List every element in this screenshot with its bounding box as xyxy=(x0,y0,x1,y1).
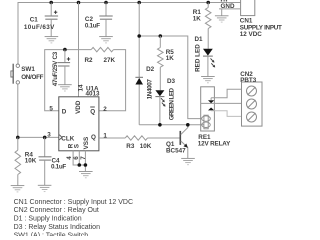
svg-text:GREEN LED: GREEN LED xyxy=(169,88,176,121)
capacitor C3 xyxy=(52,50,70,87)
svg-text:1K: 1K xyxy=(193,16,202,23)
ground C3 xyxy=(58,85,72,91)
svg-text:C1: C1 xyxy=(30,17,39,24)
svg-text:Q: Q xyxy=(91,134,96,141)
svg-text:12V RELAY: 12V RELAY xyxy=(198,140,231,147)
node rail-C1 xyxy=(49,1,53,5)
svg-text:PBT3: PBT3 xyxy=(240,77,257,84)
svg-text:1N4007: 1N4007 xyxy=(147,79,154,100)
connector CN2 PBT3 xyxy=(240,71,262,126)
capacitor C1 xyxy=(24,3,58,37)
capacitor C2 xyxy=(85,3,113,37)
svg-text:D1: D1 xyxy=(195,36,204,43)
svg-text:47uF/25V C3: 47uF/25V C3 xyxy=(52,51,59,86)
resistor R2 + Qbar feedback wire xyxy=(85,47,126,110)
svg-text:2: 2 xyxy=(103,106,107,113)
node Q1-collector xyxy=(186,123,190,127)
svg-text:10K: 10K xyxy=(140,143,152,150)
node D3-collector xyxy=(158,123,162,127)
wire relay NC to CN2-3 xyxy=(211,111,241,117)
svg-text:CN2 Connector : Relay Out: CN2 Connector : Relay Out xyxy=(14,207,99,214)
svg-text:VSS: VSS xyxy=(83,137,90,150)
node rail-D2 xyxy=(137,1,141,5)
svg-text:BC547: BC547 xyxy=(166,148,186,155)
pin 4 label xyxy=(66,156,73,160)
op-amp U1A 4013 flip-flop xyxy=(59,85,100,151)
node 12V-R5 xyxy=(159,34,163,38)
node C3 tap xyxy=(63,48,67,52)
wire CLK line xyxy=(18,136,59,138)
svg-text:10K: 10K xyxy=(25,158,37,165)
node CLK-C4 xyxy=(43,136,47,140)
ground R4 xyxy=(11,186,25,192)
svg-text:D3 : Relay Status Indication: D3 : Relay Status Indication xyxy=(14,224,100,231)
svg-text:ON/OFF: ON/OFF xyxy=(21,74,43,81)
svg-text:10uF/63V: 10uF/63V xyxy=(24,24,55,31)
node S join xyxy=(78,163,82,167)
svg-text:1K: 1K xyxy=(166,55,175,62)
svg-text:3: 3 xyxy=(47,132,51,139)
pin 3 label xyxy=(47,132,51,139)
svg-text:12 VDC: 12 VDC xyxy=(240,31,263,38)
ground C1 xyxy=(45,37,59,43)
wire SW1 to CLK xyxy=(17,84,19,137)
relay RE1 xyxy=(198,87,231,148)
ground C4 xyxy=(38,185,52,191)
pin 7 label xyxy=(80,156,87,160)
svg-text:Q: Q xyxy=(90,109,95,116)
connector CN1 xyxy=(240,0,282,38)
wire D node frame xyxy=(45,50,91,111)
wire 12V to relay coil xyxy=(139,36,202,119)
node rail-VDD xyxy=(77,1,81,5)
ground Q1 xyxy=(181,158,195,164)
GND label and wire xyxy=(219,3,241,16)
LED D1 red xyxy=(194,36,215,76)
wire R S VSS pins to ground xyxy=(73,151,85,172)
resistor R5 xyxy=(158,36,175,90)
pin 2 label xyxy=(103,106,107,113)
resistor R1 xyxy=(193,3,211,49)
resistor R3 xyxy=(99,136,180,150)
svg-text:D: D xyxy=(62,109,67,116)
wire relay common to CN2-2 xyxy=(201,102,242,104)
wire collector net xyxy=(139,124,203,126)
svg-text:R2: R2 xyxy=(85,57,94,64)
svg-text:0.1uF: 0.1uF xyxy=(51,163,66,170)
ground D1 xyxy=(201,77,215,83)
pin 5 label xyxy=(49,105,53,112)
pin 14 label xyxy=(77,84,84,92)
transistor Q1 BC547 xyxy=(166,125,188,158)
clipped +12V label xyxy=(221,0,227,2)
svg-text:14: 14 xyxy=(77,84,84,92)
capacitor C4 xyxy=(39,137,67,185)
switch SW1 xyxy=(11,64,44,84)
svg-text:S: S xyxy=(74,144,81,148)
node rail-C2 xyxy=(104,1,108,5)
wire relay NO to CN2-1 xyxy=(211,89,241,98)
ground VSS xyxy=(79,172,93,178)
svg-text:27K: 27K xyxy=(104,57,116,64)
node CLK-R4 xyxy=(16,136,20,140)
wire VDD supply xyxy=(78,3,80,97)
svg-text:D1 : Supply Indication: D1 : Supply Indication xyxy=(14,216,82,223)
wire +12V top rail xyxy=(18,3,241,64)
svg-text:4013: 4013 xyxy=(86,90,101,97)
ground C2 xyxy=(99,37,113,43)
ground CN1 xyxy=(215,16,229,22)
node VSS join xyxy=(84,163,88,167)
svg-text:SW1: SW1 xyxy=(21,66,35,73)
pin 6 label xyxy=(73,156,80,160)
svg-text:RED LED: RED LED xyxy=(194,44,201,72)
caption text xyxy=(14,199,133,239)
resistor R4 xyxy=(15,137,37,185)
LED D3 green xyxy=(155,78,175,125)
node 12V-D2 xyxy=(137,34,141,38)
svg-text:D2: D2 xyxy=(146,66,155,73)
pin 1 label xyxy=(103,133,107,140)
svg-text:5: 5 xyxy=(49,105,53,112)
svg-text:CLK: CLK xyxy=(61,135,74,142)
svg-text:R3: R3 xyxy=(126,143,135,150)
svg-text:CN1 Connector : Supply Input 1: CN1 Connector : Supply Input 12 VDC xyxy=(14,199,133,206)
svg-text:SW1 (A) : Tactile Switch: SW1 (A) : Tactile Switch xyxy=(14,232,89,236)
diode D2 1N4007 xyxy=(135,3,154,125)
node rail-R1 xyxy=(206,1,210,5)
svg-text:D3: D3 xyxy=(167,78,176,85)
svg-text:0.1uF: 0.1uF xyxy=(85,23,100,30)
svg-text:CN1: CN1 xyxy=(240,17,253,24)
svg-text:7: 7 xyxy=(80,156,87,160)
svg-text:VDD: VDD xyxy=(75,100,82,114)
